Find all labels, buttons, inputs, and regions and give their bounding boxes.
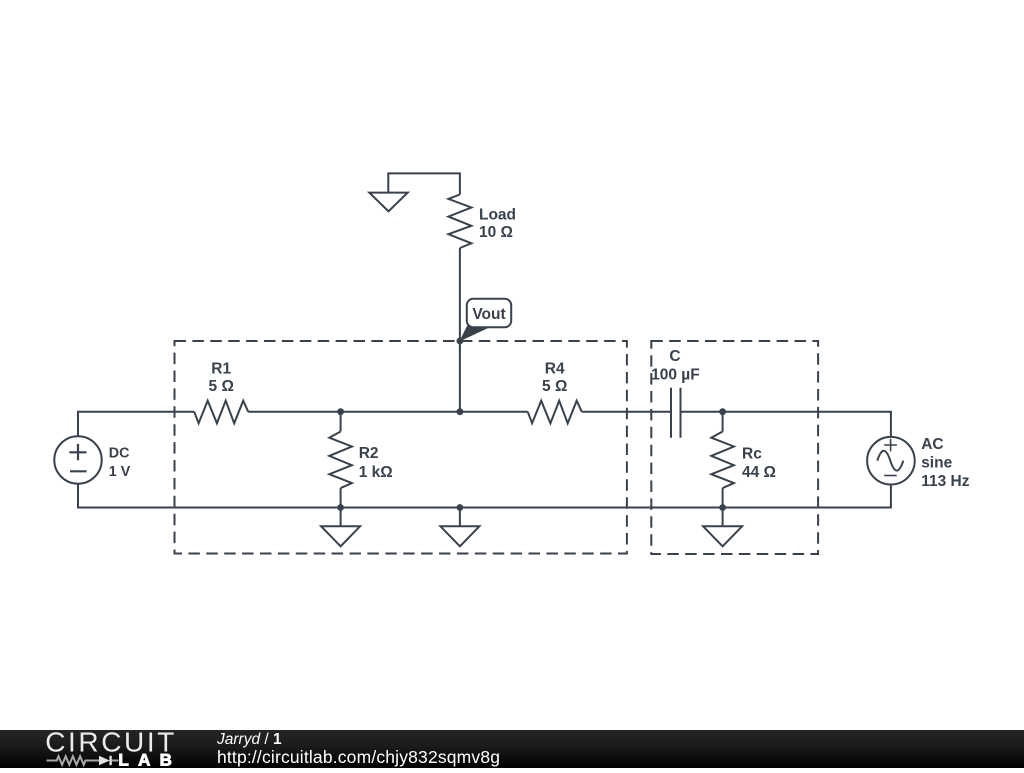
voltage source V2 AC sine — [867, 437, 915, 485]
dashed box (right subcircuit) — [651, 341, 818, 554]
wire Load bottom to Vout node — [459, 248, 461, 412]
logo diode glyph — [99, 756, 110, 765]
logo resistor glyph — [47, 756, 100, 765]
node R2 bottom — [337, 504, 344, 511]
svg-text:C: C — [669, 348, 680, 365]
node label Vout callout — [460, 325, 488, 341]
ground (under R2) — [340, 508, 342, 527]
wire DC+ up — [78, 412, 194, 437]
svg-text:5 Ω: 5 Ω — [542, 378, 567, 395]
svg-text:Vout: Vout — [472, 306, 505, 323]
capacitor C plates — [671, 388, 681, 438]
node Vout junction — [457, 338, 464, 345]
resistor R4 — [528, 401, 582, 424]
svg-text:sine: sine — [921, 455, 952, 472]
svg-text:1 kΩ: 1 kΩ — [359, 464, 393, 481]
svg-text:44 Ω: 44 Ω — [742, 464, 776, 481]
svg-text:AC: AC — [921, 436, 943, 453]
ground (top, net for Load) — [388, 173, 460, 194]
resistor Load 10 Ohm — [448, 195, 471, 249]
node Rc bottom — [719, 504, 726, 511]
svg-text:R2: R2 — [359, 445, 379, 462]
svg-text:R4: R4 — [545, 360, 565, 377]
resistor R1 — [194, 401, 248, 424]
resistor Rc — [722, 412, 724, 432]
svg-text:100 µF: 100 µF — [651, 367, 700, 384]
ground (under Rc) — [722, 508, 724, 527]
node center bottom — [457, 504, 464, 511]
svg-text:DC: DC — [109, 446, 130, 462]
wire bottom rail — [78, 484, 891, 508]
svg-text:5 Ω: 5 Ω — [209, 378, 234, 395]
svg-text:10 Ω: 10 Ω — [479, 224, 513, 241]
resistor R2 — [340, 412, 342, 432]
svg-text:1 V: 1 V — [109, 464, 131, 480]
wire R4 to C — [582, 411, 671, 413]
dashed box (left subcircuit) — [175, 341, 627, 554]
svg-text:Rc: Rc — [742, 446, 762, 463]
wire C to AC source — [681, 412, 891, 437]
node Rc top — [719, 408, 726, 415]
svg-text:R1: R1 — [211, 360, 231, 377]
svg-text:113 Hz: 113 Hz — [921, 473, 970, 490]
node R2 top — [337, 408, 344, 415]
wire R1 to R4 — [248, 411, 528, 413]
ground (center bottom) — [459, 508, 461, 527]
svg-text:LAB: LAB — [118, 750, 181, 768]
voltage source V1 DC 1V — [54, 436, 101, 483]
node Vout column on main wire — [457, 408, 464, 415]
svg-text:Load: Load — [479, 206, 516, 223]
